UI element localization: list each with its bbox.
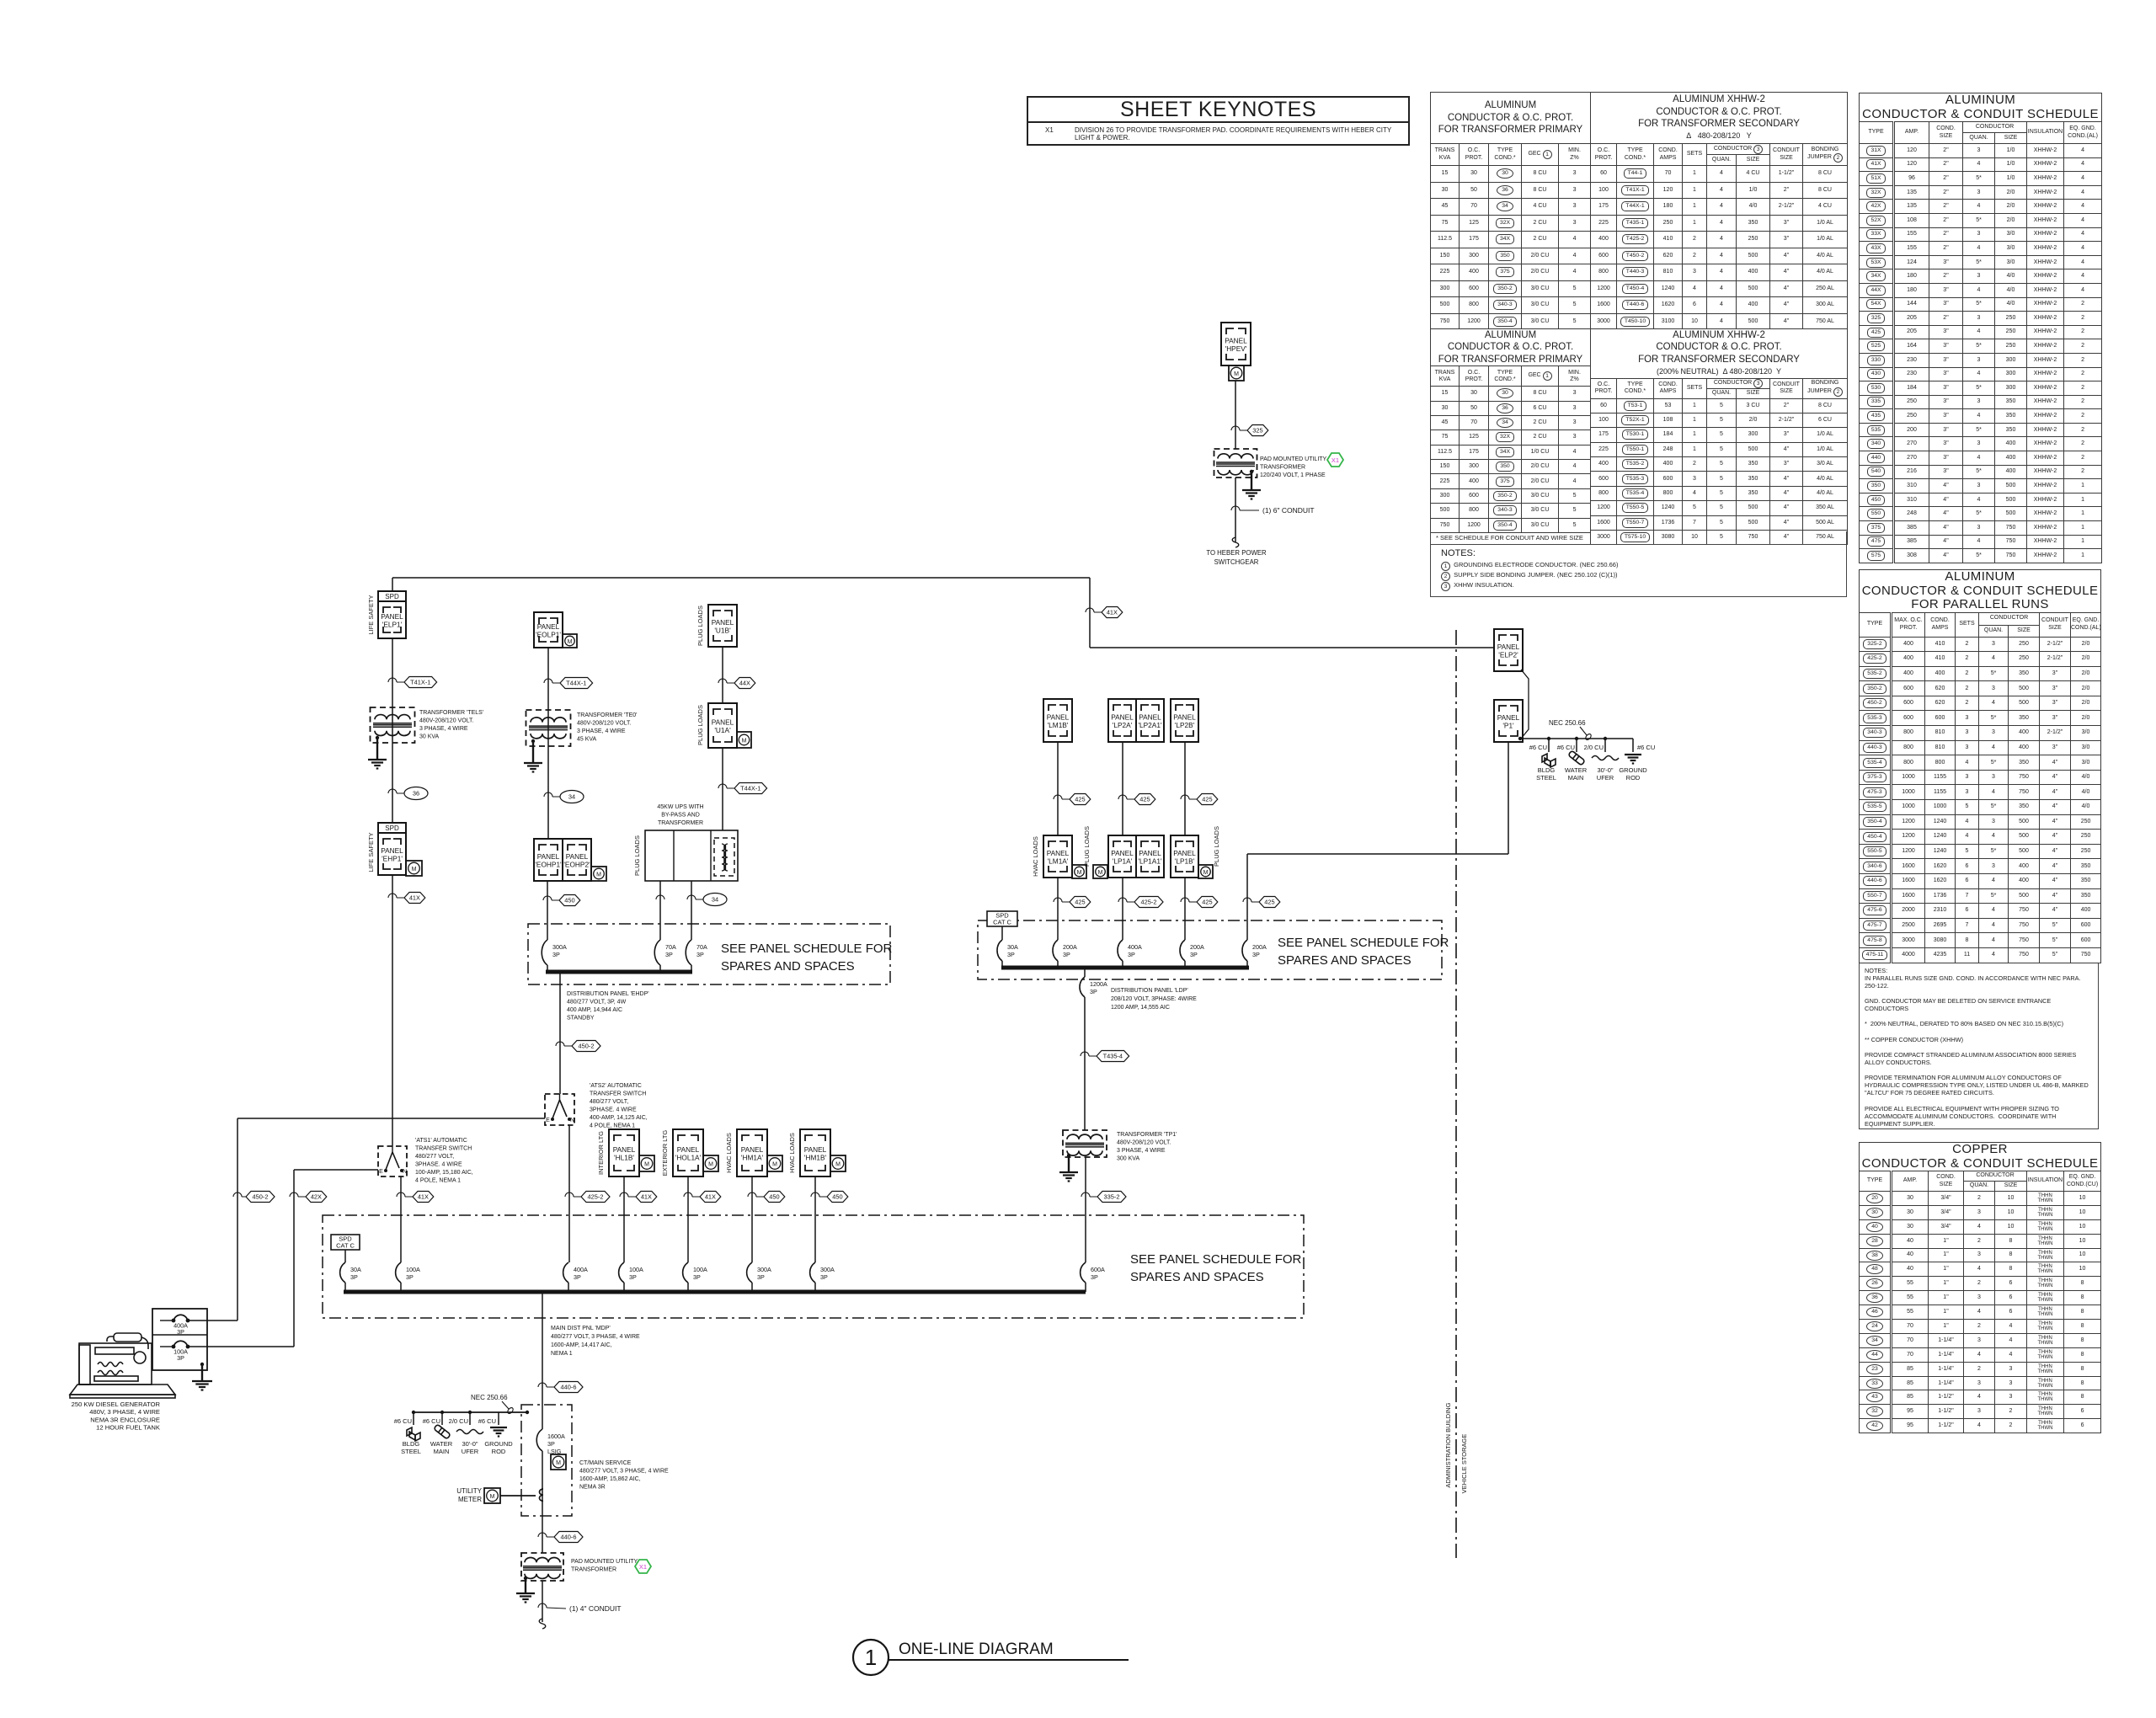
svg-text:E: E: [546, 1118, 550, 1123]
svg-text:NEMA 3R ENCLOSURE: NEMA 3R ENCLOSURE: [90, 1416, 160, 1423]
svg-text:M: M: [742, 738, 747, 744]
svg-text:300A: 300A: [552, 943, 567, 951]
svg-text:STEEL: STEEL: [1536, 774, 1556, 782]
svg-text:PANEL: PANEL: [712, 718, 734, 727]
svg-text:TO HEBER POWER: TO HEBER POWER: [1206, 549, 1267, 557]
svg-text:UFER: UFER: [462, 1448, 479, 1455]
svg-text:480V, 3 PHASE, 4 WIRE: 480V, 3 PHASE, 4 WIRE: [89, 1408, 160, 1416]
svg-text:30A: 30A: [1007, 943, 1018, 951]
svg-text:#6 CU: #6 CU: [394, 1417, 412, 1425]
svg-text:480V-208/120 VOLT.: 480V-208/120 VOLT.: [1117, 1140, 1171, 1146]
svg-text:3 PHASE, 4 WIRE: 3 PHASE, 4 WIRE: [1117, 1148, 1166, 1154]
svg-text:400-AMP, 14,125 AIC,: 400-AMP, 14,125 AIC,: [590, 1115, 648, 1121]
svg-text:#6 CU: #6 CU: [478, 1417, 496, 1425]
svg-text:3P: 3P: [665, 951, 673, 958]
svg-text:LIFE SAFETY: LIFE SAFETY: [367, 832, 375, 872]
svg-text:(1) 6" CONDUIT: (1) 6" CONDUIT: [1262, 506, 1315, 515]
svg-text:12 HOUR FUEL TANK: 12 HOUR FUEL TANK: [96, 1424, 160, 1432]
svg-text:#6 CU: #6 CU: [1529, 744, 1547, 751]
svg-text:STANDBY: STANDBY: [567, 1016, 595, 1022]
svg-text:LIFE SAFETY: LIFE SAFETY: [367, 595, 375, 634]
svg-text:NEC 250.66: NEC 250.66: [471, 1394, 508, 1401]
svg-text:ONE-LINE DIAGRAM: ONE-LINE DIAGRAM: [899, 1641, 1054, 1658]
svg-text:PLUG LOADS: PLUG LOADS: [696, 606, 704, 646]
svg-text:42X: 42X: [311, 1193, 322, 1201]
svg-text:3P: 3P: [1007, 951, 1015, 958]
svg-text:480/277 VOLT, 3 PHASE, 4 WIRE: 480/277 VOLT, 3 PHASE, 4 WIRE: [551, 1334, 640, 1340]
svg-text:PANEL: PANEL: [537, 622, 560, 631]
svg-text:MAIN: MAIN: [1568, 774, 1584, 782]
svg-text:ROD: ROD: [492, 1448, 506, 1455]
svg-text:M: M: [708, 1161, 713, 1167]
svg-text:1200 AMP, 14,555 AIC: 1200 AMP, 14,555 AIC: [1111, 1005, 1170, 1011]
svg-text:400A: 400A: [1128, 943, 1142, 951]
svg-text:120/240 VOLT, 1 PHASE: 120/240 VOLT, 1 PHASE: [1260, 472, 1326, 478]
svg-text:T44X-1: T44X-1: [566, 680, 586, 687]
svg-text:1600-AMP, 15,862 AIC,: 1600-AMP, 15,862 AIC,: [579, 1476, 641, 1482]
svg-text:GROUND: GROUND: [484, 1440, 513, 1448]
svg-text:X1: X1: [639, 1563, 647, 1571]
svg-text:440-6: 440-6: [561, 1534, 577, 1541]
svg-text:440-6: 440-6: [561, 1384, 577, 1391]
svg-text:PANEL: PANEL: [613, 1145, 636, 1154]
svg-text:450: 450: [564, 897, 574, 904]
svg-text:PANEL: PANEL: [1111, 713, 1134, 722]
svg-text:425-2: 425-2: [1141, 899, 1157, 906]
svg-text:450: 450: [769, 1193, 779, 1201]
svg-text:300 KVA: 300 KVA: [1117, 1156, 1139, 1162]
svg-text:TRANSFER SWITCH: TRANSFER SWITCH: [415, 1146, 472, 1152]
svg-text:M: M: [772, 1161, 777, 1167]
svg-text:'ELP1': 'ELP1': [382, 621, 403, 629]
svg-text:MAIN: MAIN: [434, 1448, 450, 1455]
svg-text:METER: METER: [458, 1496, 482, 1503]
svg-text:PLUG LOADS: PLUG LOADS: [1213, 826, 1220, 867]
svg-text:PLUG LOADS: PLUG LOADS: [696, 705, 704, 745]
svg-text:3P: 3P: [693, 1273, 701, 1281]
svg-text:INTERIOR LTG: INTERIOR LTG: [597, 1131, 605, 1175]
svg-text:M: M: [556, 1460, 561, 1466]
svg-text:34: 34: [568, 793, 575, 801]
svg-text:E: E: [379, 1169, 383, 1175]
svg-text:'EOHP1': 'EOHP1': [535, 861, 562, 869]
svg-text:36: 36: [413, 790, 419, 798]
svg-text:TRANSFORMER 'TE0': TRANSFORMER 'TE0': [577, 712, 638, 718]
svg-text:PANEL: PANEL: [1111, 849, 1134, 857]
svg-text:#6 CU: #6 CU: [1557, 744, 1575, 751]
svg-text:325: 325: [1252, 427, 1262, 435]
svg-text:WATER: WATER: [430, 1440, 453, 1448]
svg-text:PANEL: PANEL: [741, 1145, 764, 1154]
svg-text:208/120 VOLT, 3PHASE: 4WIRE: 208/120 VOLT, 3PHASE: 4WIRE: [1111, 996, 1197, 1002]
svg-text:M: M: [1098, 870, 1103, 876]
svg-text:PANEL: PANEL: [804, 1145, 827, 1154]
svg-text:480/277 VOLT, 3 PHASE, 4 WIRE: 480/277 VOLT, 3 PHASE, 4 WIRE: [579, 1469, 669, 1475]
svg-text:WATER: WATER: [1565, 766, 1588, 774]
svg-text:BLDG: BLDG: [403, 1440, 420, 1448]
svg-text:M: M: [490, 1494, 495, 1500]
svg-text:PANEL: PANEL: [1047, 849, 1070, 857]
svg-text:'HM1A': 'HM1A': [741, 1154, 764, 1162]
svg-text:'HL1B': 'HL1B': [614, 1154, 634, 1162]
svg-text:M: M: [568, 639, 573, 645]
svg-text:PANEL: PANEL: [566, 852, 589, 861]
svg-text:#6 CU: #6 CU: [423, 1417, 440, 1425]
svg-text:100A: 100A: [693, 1266, 707, 1273]
svg-text:PANEL: PANEL: [712, 618, 734, 627]
svg-text:BY-PASS AND: BY-PASS AND: [661, 813, 700, 819]
svg-text:PANEL: PANEL: [1497, 643, 1520, 651]
svg-text:100A: 100A: [629, 1266, 643, 1273]
svg-text:'ELP2': 'ELP2': [1498, 651, 1518, 659]
svg-text:'U1B': 'U1B': [714, 627, 731, 635]
svg-text:70A: 70A: [665, 943, 676, 951]
svg-text:#6 CU: #6 CU: [1637, 744, 1655, 751]
svg-text:(1) 4" CONDUIT: (1) 4" CONDUIT: [569, 1604, 622, 1613]
svg-text:'EOLP1': 'EOLP1': [536, 631, 561, 639]
svg-text:300A: 300A: [757, 1266, 771, 1273]
svg-text:4 POLE, NEMA 1: 4 POLE, NEMA 1: [415, 1178, 461, 1184]
svg-text:3P: 3P: [1252, 951, 1260, 958]
svg-text:425: 425: [1264, 899, 1274, 906]
svg-text:SPARES AND SPACES: SPARES AND SPACES: [1130, 1270, 1264, 1284]
svg-text:41X: 41X: [705, 1193, 716, 1201]
svg-text:400A: 400A: [574, 1266, 588, 1273]
svg-text:'HM1B': 'HM1B': [804, 1154, 827, 1162]
svg-text:'ATS1' AUTOMATIC: 'ATS1' AUTOMATIC: [415, 1138, 467, 1144]
svg-text:PANEL: PANEL: [537, 852, 560, 861]
svg-text:SPD: SPD: [385, 593, 399, 600]
svg-text:30 KVA: 30 KVA: [419, 734, 440, 740]
svg-text:SWITCHGEAR: SWITCHGEAR: [1214, 558, 1259, 566]
svg-text:'P1': 'P1': [1502, 722, 1514, 730]
svg-text:SEE PANEL SCHEDULE FOR: SEE PANEL SCHEDULE FOR: [1130, 1252, 1302, 1267]
svg-text:M: M: [644, 1161, 649, 1167]
svg-text:70A: 70A: [696, 943, 707, 951]
svg-text:3PHASE. 4 WIRE: 3PHASE. 4 WIRE: [415, 1162, 462, 1168]
svg-text:PANEL: PANEL: [1139, 713, 1161, 722]
svg-text:3PHASE. 4 WIRE: 3PHASE. 4 WIRE: [590, 1107, 637, 1113]
svg-text:425: 425: [1202, 796, 1212, 803]
svg-text:TRANSFER SWITCH: TRANSFER SWITCH: [590, 1091, 646, 1097]
svg-text:SEE PANEL SCHEDULE FOR: SEE PANEL SCHEDULE FOR: [721, 942, 893, 956]
svg-text:41X: 41X: [418, 1193, 429, 1201]
svg-text:425: 425: [1202, 899, 1212, 906]
svg-text:200A: 200A: [1063, 943, 1077, 951]
svg-text:SPARES AND SPACES: SPARES AND SPACES: [1278, 953, 1412, 968]
svg-text:NEMA 3R: NEMA 3R: [579, 1485, 606, 1491]
svg-text:1600-AMP, 14,417 AIC,: 1600-AMP, 14,417 AIC,: [551, 1342, 612, 1348]
svg-text:'LP1B': 'LP1B': [1175, 857, 1195, 866]
svg-text:34: 34: [712, 896, 718, 904]
svg-text:250 KW DIESEL GENERATOR: 250 KW DIESEL GENERATOR: [72, 1401, 161, 1408]
svg-text:450-2: 450-2: [579, 1043, 595, 1050]
svg-text:3P: 3P: [177, 1328, 184, 1336]
svg-text:'EHP1': 'EHP1': [382, 855, 403, 863]
svg-text:UTILITY: UTILITY: [456, 1487, 482, 1495]
svg-text:NEC 250.66: NEC 250.66: [1549, 719, 1586, 727]
svg-text:41X: 41X: [1107, 609, 1118, 616]
svg-text:'LP1A1': 'LP1A1': [1138, 857, 1161, 866]
svg-text:'EOHP2': 'EOHP2': [563, 861, 590, 869]
svg-text:NEMA 1: NEMA 1: [551, 1351, 573, 1357]
svg-text:600A: 600A: [1091, 1266, 1105, 1273]
svg-text:SEE PANEL SCHEDULE FOR: SEE PANEL SCHEDULE FOR: [1278, 936, 1449, 950]
svg-text:MAIN DIST PNL 'MDP': MAIN DIST PNL 'MDP': [551, 1326, 611, 1331]
svg-text:1200A: 1200A: [1090, 980, 1107, 988]
svg-text:41X: 41X: [409, 894, 420, 902]
svg-text:'LM1A': 'LM1A': [1048, 857, 1069, 866]
svg-text:41X: 41X: [641, 1193, 652, 1201]
svg-text:3P: 3P: [696, 951, 704, 958]
svg-text:HVAC LOADS: HVAC LOADS: [788, 1133, 796, 1173]
svg-text:200A: 200A: [1190, 943, 1204, 951]
svg-text:450: 450: [832, 1193, 842, 1201]
svg-text:3P: 3P: [574, 1273, 581, 1281]
svg-text:PANEL: PANEL: [1497, 713, 1520, 722]
svg-text:PANEL: PANEL: [381, 612, 403, 621]
svg-text:3P: 3P: [552, 951, 560, 958]
svg-text:3 PHASE, 4 WIRE: 3 PHASE, 4 WIRE: [419, 726, 468, 732]
svg-text:3P: 3P: [1091, 1273, 1098, 1281]
svg-text:'U1A': 'U1A': [714, 726, 731, 734]
svg-text:2/0 CU: 2/0 CU: [449, 1417, 468, 1425]
svg-text:TRANSFORMER: TRANSFORMER: [658, 820, 703, 826]
svg-text:335-2: 335-2: [1104, 1193, 1120, 1201]
svg-text:PANEL: PANEL: [1225, 337, 1247, 345]
svg-text:PLUG LOADS: PLUG LOADS: [1083, 826, 1091, 867]
svg-text:PLUG LOADS: PLUG LOADS: [633, 835, 641, 876]
svg-text:CAT C: CAT C: [336, 1242, 355, 1250]
svg-text:3P: 3P: [1128, 951, 1135, 958]
svg-text:'HPEV': 'HPEV': [1225, 344, 1247, 353]
svg-text:30A: 30A: [350, 1266, 361, 1273]
svg-text:425: 425: [1139, 796, 1150, 803]
svg-text:TRANSFORMER: TRANSFORMER: [571, 1567, 616, 1573]
svg-text:425: 425: [1075, 796, 1085, 803]
svg-text:PANEL: PANEL: [1173, 713, 1196, 722]
svg-text:4 POLE, NEMA 1: 4 POLE, NEMA 1: [590, 1123, 635, 1129]
svg-text:3P: 3P: [177, 1354, 184, 1362]
svg-text:PANEL: PANEL: [1047, 713, 1070, 722]
svg-text:'HOL1A': 'HOL1A': [675, 1154, 702, 1162]
svg-text:CT/MAIN SERVICE: CT/MAIN SERVICE: [579, 1460, 632, 1466]
svg-text:TRANSFORMER 'TELS': TRANSFORMER 'TELS': [419, 710, 483, 716]
svg-text:200A: 200A: [1252, 943, 1267, 951]
svg-text:UFER: UFER: [1597, 774, 1614, 782]
svg-text:480/277 VOLT,: 480/277 VOLT,: [590, 1099, 628, 1105]
svg-text:PANEL: PANEL: [381, 846, 403, 855]
svg-text:'LM1B': 'LM1B': [1048, 721, 1069, 729]
svg-text:3P: 3P: [547, 1440, 555, 1448]
svg-text:480/277 VOLT, 3P, 4W: 480/277 VOLT, 3P, 4W: [567, 1000, 627, 1006]
svg-text:HVAC LOADS: HVAC LOADS: [1032, 836, 1039, 877]
svg-text:M: M: [1077, 870, 1082, 876]
svg-text:1600A: 1600A: [547, 1433, 565, 1440]
svg-text:400 AMP, 14,944 AIC: 400 AMP, 14,944 AIC: [567, 1007, 622, 1013]
svg-text:30'-0": 30'-0": [462, 1440, 478, 1448]
svg-text:X1: X1: [1331, 456, 1339, 464]
svg-text:HVAC LOADS: HVAC LOADS: [725, 1133, 733, 1173]
svg-text:EXTERIOR LTG: EXTERIOR LTG: [661, 1130, 669, 1176]
svg-text:480V-208/120 VOLT.: 480V-208/120 VOLT.: [419, 718, 474, 724]
svg-text:30'-0": 30'-0": [1597, 766, 1613, 774]
svg-text:PANEL: PANEL: [677, 1145, 700, 1154]
svg-text:1: 1: [865, 1645, 877, 1670]
svg-text:'LP1A': 'LP1A': [1113, 857, 1133, 866]
svg-text:3 PHASE, 4 WIRE: 3 PHASE, 4 WIRE: [577, 728, 626, 734]
svg-text:100A: 100A: [406, 1266, 420, 1273]
svg-text:N: N: [570, 1118, 574, 1123]
svg-text:SPARES AND SPACES: SPARES AND SPACES: [721, 959, 855, 974]
svg-text:M: M: [835, 1161, 841, 1167]
svg-text:T44X-1: T44X-1: [740, 785, 760, 792]
svg-text:3P: 3P: [757, 1273, 765, 1281]
svg-text:T435-4: T435-4: [1103, 1053, 1123, 1060]
svg-text:3P: 3P: [1190, 951, 1198, 958]
svg-text:'LP2B': 'LP2B': [1175, 721, 1195, 729]
svg-text:2/0 CU: 2/0 CU: [1584, 744, 1604, 751]
svg-text:GROUND: GROUND: [1619, 766, 1647, 774]
svg-text:3P: 3P: [406, 1273, 414, 1281]
svg-text:45KW UPS WITH: 45KW UPS WITH: [657, 804, 703, 810]
svg-text:44X: 44X: [739, 680, 750, 687]
svg-text:M: M: [596, 872, 601, 878]
svg-text:ROD: ROD: [1626, 774, 1641, 782]
svg-text:STEEL: STEEL: [401, 1448, 421, 1455]
svg-text:TRANSFORMER 'TP1': TRANSFORMER 'TP1': [1117, 1132, 1177, 1138]
svg-text:'LP2A': 'LP2A': [1113, 721, 1133, 729]
svg-text:450-2: 450-2: [253, 1193, 269, 1201]
svg-text:3P: 3P: [1063, 951, 1070, 958]
svg-text:100-AMP, 15,180 AIC,: 100-AMP, 15,180 AIC,: [415, 1170, 473, 1176]
svg-text:SPD: SPD: [385, 824, 399, 832]
svg-text:DISTRIBUTION PANEL 'LDP': DISTRIBUTION PANEL 'LDP': [1111, 988, 1188, 994]
svg-text:425: 425: [1075, 899, 1085, 906]
svg-text:M: M: [1203, 870, 1209, 876]
svg-text:3P: 3P: [820, 1273, 828, 1281]
svg-text:PANEL: PANEL: [1173, 849, 1196, 857]
svg-text:M: M: [412, 867, 417, 872]
svg-text:BLDG: BLDG: [1538, 766, 1556, 774]
svg-text:3P: 3P: [629, 1273, 637, 1281]
svg-text:DISTRIBUTION PANEL 'EHDP': DISTRIBUTION PANEL 'EHDP': [567, 991, 649, 997]
svg-text:VEHICLE STORAGE: VEHICLE STORAGE: [1460, 1434, 1468, 1494]
svg-text:M: M: [1234, 371, 1239, 377]
svg-text:'LP2A1': 'LP2A1': [1138, 721, 1161, 729]
svg-text:PAD MOUNTED UTILITY: PAD MOUNTED UTILITY: [1260, 456, 1327, 462]
svg-text:PANEL: PANEL: [1139, 849, 1161, 857]
svg-text:T41X-1: T41X-1: [410, 679, 430, 686]
svg-text:TRANSFORMER: TRANSFORMER: [1260, 465, 1305, 471]
svg-text:480/277 VOLT,: 480/277 VOLT,: [415, 1154, 454, 1160]
svg-text:425-2: 425-2: [588, 1193, 604, 1201]
svg-text:ADMINISTRATION BUILDING: ADMINISTRATION BUILDING: [1444, 1402, 1452, 1487]
svg-text:PAD MOUNTED UTILITY: PAD MOUNTED UTILITY: [571, 1559, 638, 1565]
svg-text:300A: 300A: [820, 1266, 835, 1273]
svg-text:3P: 3P: [1090, 988, 1097, 995]
svg-text:3P: 3P: [350, 1273, 358, 1281]
svg-text:CAT C: CAT C: [993, 919, 1011, 926]
svg-text:480V-208/120 VOLT.: 480V-208/120 VOLT.: [577, 721, 632, 727]
svg-text:N: N: [403, 1169, 407, 1175]
svg-text:45 KVA: 45 KVA: [577, 737, 597, 743]
svg-text:'ATS2' AUTOMATIC: 'ATS2' AUTOMATIC: [590, 1083, 642, 1089]
